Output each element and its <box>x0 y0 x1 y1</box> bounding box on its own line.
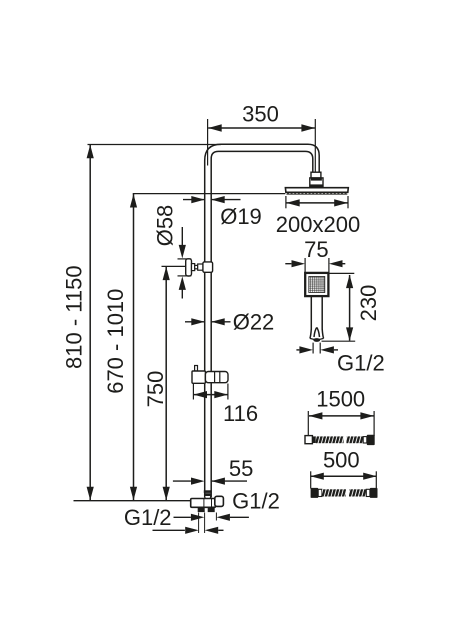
dim 1500: left arrowhead <box>309 412 323 419</box>
handshower mouth <box>313 338 320 342</box>
dim 230: bottom arrowhead <box>346 327 353 341</box>
dim Ø19: left arrowhead <box>191 196 205 203</box>
dim 810-1150: top extension line <box>88 144 222 146</box>
dim Ø58: top extension line <box>178 258 192 260</box>
dim 350: left extension line <box>207 119 209 166</box>
dim Ø22: right arrowhead <box>211 318 225 325</box>
dim 1500: right extension line <box>373 411 375 436</box>
valve body inner line 2 <box>211 499 213 508</box>
svg-text:500: 500 <box>323 447 360 472</box>
svg-text:55: 55 <box>229 456 253 481</box>
handshower outlet extension line left <box>312 343 314 354</box>
dim 75: right extension line <box>328 258 330 273</box>
dim Ø19: right arrowhead <box>211 196 225 203</box>
handshower inner cone <box>314 327 320 337</box>
valve right outlet nut <box>208 507 215 512</box>
bottom fitting taper <box>205 495 211 498</box>
dim 1500: right arrowhead <box>360 412 374 419</box>
hose 500: right thread collar <box>366 489 370 496</box>
dim G1/2 left row: right arrowhead <box>205 527 219 534</box>
hose 500: left thread collar <box>318 489 322 496</box>
head connector: collar bottom band <box>310 184 323 187</box>
dim handshower G1/2: right line <box>334 349 338 351</box>
dim 200x200: right arrowhead <box>334 199 348 206</box>
svg-text:200x200: 200x200 <box>276 212 360 237</box>
wall bracket arm piece 1 <box>192 264 195 271</box>
handshower handle left edge <box>310 296 312 329</box>
dim 230: bottom extension line <box>322 340 356 342</box>
dim 116: dimension line <box>194 394 228 396</box>
svg-text:Ø19: Ø19 <box>220 204 262 229</box>
valve outlet extension line c <box>215 513 217 521</box>
dim 500: right extension line <box>375 471 377 488</box>
dim G1/2 left row: left line <box>153 529 185 531</box>
dim Ø58: down arrow shaft <box>181 227 183 248</box>
valve left outlet nut <box>198 507 205 512</box>
dim 750: top extension line <box>162 265 187 267</box>
handshower handle right edge <box>321 296 323 329</box>
overhead shower spray dotted line <box>287 192 347 194</box>
dim 810-1150: dimension line <box>89 145 91 500</box>
svg-text:Ø22: Ø22 <box>233 310 275 335</box>
dim 55: right line <box>211 480 247 482</box>
head connector: collar top band <box>311 178 322 181</box>
valve body <box>191 499 216 508</box>
wall bracket arm piece 2 <box>198 264 203 270</box>
hose 1500: left collar <box>312 436 315 443</box>
svg-text:75: 75 <box>304 237 328 262</box>
head connector: collar body <box>310 178 323 187</box>
dim 75: right arrowhead <box>329 260 343 267</box>
shower column pipe: outer contour <box>205 144 320 497</box>
dim G1/2 right row: right arrowhead <box>216 514 230 521</box>
hose 500: left fitting <box>311 488 319 498</box>
dim handshower G1/2: right arrowhead <box>320 346 334 353</box>
hose 500: coil section A <box>322 489 346 496</box>
dim 230: dimension line <box>349 275 351 341</box>
dim 750: dimension line <box>165 267 167 500</box>
dim 350: right arrowhead <box>301 124 315 131</box>
dim handshower G1/2: left arrowhead <box>299 346 313 353</box>
dim 230: top arrowhead <box>346 275 353 289</box>
valve body inner line 1 <box>203 499 205 508</box>
hose 1500: coil section A <box>316 436 344 443</box>
dim 200x200: right extension line <box>347 196 349 208</box>
dim G1/2 left row: left arrowhead <box>185 527 199 534</box>
valve right cap <box>215 496 224 506</box>
dim 75: left extension line <box>304 258 306 273</box>
handshower holder division line 1 <box>214 372 216 383</box>
overhead shower plate <box>285 188 348 193</box>
svg-text:1500: 1500 <box>316 386 365 411</box>
handshower head mesh <box>309 277 325 293</box>
handshower holder division line 2 <box>219 372 221 383</box>
head connector: upper fitting <box>311 172 321 178</box>
dim Ø22: left line <box>185 321 204 323</box>
hose 500: coil section B <box>349 489 366 496</box>
dim 1500: left extension line <box>307 411 309 437</box>
wall baseline <box>74 500 193 502</box>
handshower flare left <box>310 329 311 338</box>
dim 1500: dimension line <box>309 415 374 417</box>
dim 116: right extension line <box>227 384 229 400</box>
hose 1500: left fitting <box>305 436 312 444</box>
shower column pipe: inner contour <box>211 151 313 497</box>
dim 116: right arrowhead <box>214 391 228 398</box>
dim 500: dimension line <box>310 475 376 477</box>
svg-text:230: 230 <box>356 285 381 322</box>
handshower head <box>305 273 328 296</box>
handshower outlet extension line right <box>319 343 321 354</box>
svg-text:G1/2: G1/2 <box>337 350 385 375</box>
handshower flare right <box>322 329 323 338</box>
dim Ø22: right line <box>211 321 230 323</box>
dim 750: top arrowhead <box>163 267 170 281</box>
dim 200x200: left arrowhead <box>286 199 300 206</box>
svg-text:G1/2: G1/2 <box>232 489 280 514</box>
dim Ø58: bottom extension line <box>178 275 192 277</box>
dim 350: right extension line <box>314 119 316 172</box>
dim Ø19: right line <box>211 199 240 201</box>
svg-text:Ø58: Ø58 <box>153 205 178 247</box>
dim 75: left arrowhead <box>292 260 306 267</box>
bottom fitting band 1 <box>204 490 212 493</box>
dim 200x200: left extension line <box>285 196 287 208</box>
valve outlet extension line b <box>204 513 206 534</box>
svg-text:116: 116 <box>223 401 258 426</box>
dim 55: left arrowhead <box>191 478 205 485</box>
dim G1/2 right row: left arrowhead <box>191 514 205 521</box>
dim Ø58: up arrow shaft <box>181 289 183 299</box>
dim Ø22: left arrowhead <box>191 318 205 325</box>
dim G1/2 right row: right line <box>230 516 249 518</box>
dim Ø58: down arrowhead <box>179 245 186 259</box>
handshower holder right body <box>205 372 228 383</box>
svg-text:810 - 1150: 810 - 1150 <box>62 265 87 369</box>
handshower holder left clamp <box>192 371 205 383</box>
dim G1/2 left row: right line <box>218 529 223 531</box>
wall bracket slider block on pipe <box>203 262 213 272</box>
dim handshower G1/2: left line <box>296 349 299 351</box>
dim 810-1150: bottom arrowhead <box>87 487 94 501</box>
hose 500: right fitting <box>370 488 378 498</box>
dim 116: left extension line <box>192 384 194 400</box>
dim 55: left line <box>173 480 191 482</box>
wall bracket plate <box>186 259 192 276</box>
dim 670-1010: bottom arrowhead <box>130 487 137 501</box>
handshower bottom rim <box>310 338 324 339</box>
wall bracket arm rod <box>195 265 198 268</box>
dim 750: bottom arrowhead <box>163 487 170 501</box>
dim 350: dimension line <box>208 127 315 129</box>
dim 500: right arrowhead <box>363 473 377 480</box>
handshower holder pin <box>195 366 198 372</box>
dim 350: left arrowhead <box>208 124 222 131</box>
dim 230: top extension line <box>329 272 355 274</box>
dim 670-1010: top arrowhead <box>130 194 137 208</box>
svg-text:G1/2: G1/2 <box>124 505 172 530</box>
dim 75: left line <box>285 263 291 265</box>
dim 670-1010: dimension line <box>133 194 135 500</box>
dim 75: right line <box>343 263 346 265</box>
dim Ø19: left line <box>183 199 204 201</box>
dim G1/2 right row: left line <box>174 516 191 518</box>
dim Ø58: up arrowhead <box>179 276 186 290</box>
hose 1500: right fitting <box>367 435 375 445</box>
dim 200x200: dimension line <box>286 202 347 204</box>
bottom fitting band 2 <box>204 493 211 495</box>
dim 116: left arrowhead <box>194 391 208 398</box>
dim 670-1010: top extension line <box>133 193 286 195</box>
dim 55: right arrowhead <box>211 478 225 485</box>
dim 810-1150: top arrowhead <box>87 145 94 159</box>
svg-text:750: 750 <box>143 371 168 408</box>
svg-text:350: 350 <box>242 102 279 127</box>
hose 1500: coil section B <box>346 436 363 443</box>
hose 1500: thread collar <box>363 437 367 443</box>
dim 500: left arrowhead <box>310 473 324 480</box>
valve outlet extension line a <box>198 513 200 534</box>
dim 500: left extension line <box>310 471 312 488</box>
overhead shower bottom rim <box>286 193 347 195</box>
svg-text:670 - 1010: 670 - 1010 <box>103 289 128 394</box>
